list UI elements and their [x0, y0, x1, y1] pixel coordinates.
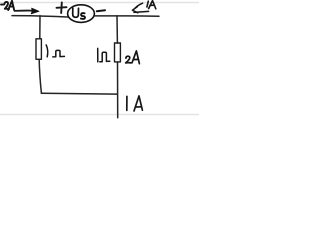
ruled notebook line bottom: [0, 114, 199, 116]
label 1 ohm of left resistor: [46, 45, 64, 57]
wire top-left segment: [12, 16, 68, 17]
current arrow 1A (top right, hooked, pointing left): [132, 3, 148, 13]
label 1A bottom: [127, 96, 143, 111]
wire right branch lower with output stub: [117, 62, 119, 118]
label 2A right of R2: [126, 51, 140, 64]
wire right branch upper: [116, 16, 118, 43]
wire left branch lower: [39, 59, 41, 93]
current arrow for -2A pointing right: [15, 10, 32, 12]
resistor R1 (left): [36, 39, 41, 60]
ruled notebook line top: [0, 2, 199, 4]
wire left branch upper: [39, 16, 41, 39]
voltage source U_s oval: [68, 5, 95, 23]
label Us inside source: [73, 8, 85, 19]
wire top-right segment: [95, 15, 159, 17]
label 1A top right: [147, 1, 156, 9]
resistor R2 (right): [115, 43, 121, 62]
label -2A (top-left current label): [1, 1, 14, 10]
minus sign: [97, 10, 105, 11]
wire bottom segment: [41, 92, 117, 95]
plus sign: [57, 2, 67, 13]
label 1 ohm of right resistor: [98, 48, 110, 62]
